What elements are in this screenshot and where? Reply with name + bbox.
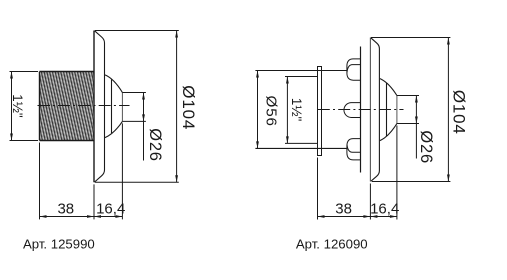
bell dome outline (right figure) (380, 79, 397, 96)
svg-text:Ø26: Ø26 (417, 130, 435, 164)
dimension 38 and 16,4 (right figure) (318, 126, 397, 220)
svg-text:1½": 1½" (289, 98, 304, 122)
socket body outer Ø56 lines (right figure) (255, 71, 347, 149)
escutcheon cone profile (right figure) (371, 38, 380, 182)
centerline (right figure) (318, 109, 404, 111)
svg-text:Ø56: Ø56 (263, 96, 280, 127)
outlet pipe front face (right figure) (396, 96, 398, 124)
svg-text:Ø26: Ø26 (146, 128, 164, 162)
escutcheon cone profile (left figure) (95, 31, 105, 182)
dimension 1 1/2 inch (left figure) (10, 72, 39, 141)
svg-text:16,4: 16,4 (370, 201, 399, 218)
nut mounting plate line (right figure) (360, 47, 362, 173)
bell front rim edge (left figure) (111, 80, 113, 134)
svg-text:1½": 1½" (10, 94, 25, 118)
bell dome outline (left figure) (105, 75, 122, 93)
svg-text:Арт. 125990: Арт. 125990 (23, 237, 95, 252)
union flange plate (right figure) (318, 67, 322, 156)
outlet pipe front face (left figure) (121, 93, 123, 122)
dimension Ø56 (right figure) (257, 71, 259, 149)
svg-text:Ø104: Ø104 (179, 85, 198, 130)
wall plate disc edge (right figure) (369, 38, 371, 182)
dimension Ø26 (left figure) (122, 93, 145, 161)
svg-text:38: 38 (335, 201, 352, 218)
top mounting nut (right figure) (347, 59, 361, 80)
socket bore 1 1/2 inch lines (right figure) (285, 77, 318, 144)
wall plate disc edge (left figure) (93, 31, 95, 183)
middle outlet boss (right figure) (344, 103, 361, 118)
dimension 1 1/2 inch (right figure) (286, 77, 288, 144)
dimension Ø104 (right figure) (371, 38, 451, 182)
dimension Ø104 (left figure) (95, 31, 179, 183)
dimension 38 and 16,4 (left figure) (40, 123, 123, 219)
svg-text:16,4: 16,4 (96, 201, 125, 218)
threaded nipple body (hatched) (40, 72, 94, 141)
svg-text:Ø104: Ø104 (450, 90, 469, 135)
bottom mounting nut (right figure) (347, 139, 361, 160)
bell front rim edge (right figure) (386, 83, 388, 136)
dimension Ø26 (right figure) (397, 96, 419, 159)
svg-text:38: 38 (57, 201, 74, 218)
centerline (left figure) (38, 105, 130, 107)
svg-text:Арт. 126090: Арт. 126090 (296, 236, 368, 251)
